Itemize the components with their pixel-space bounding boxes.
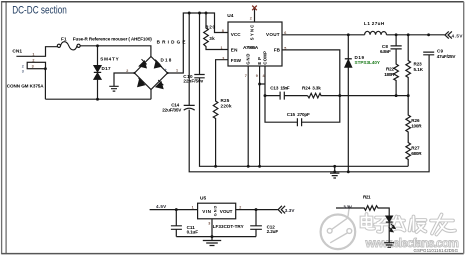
svg-text:1: 1 (221, 46, 223, 50)
svg-text:2.2uF: 2.2uF (267, 229, 279, 234)
svg-text:2: 2 (126, 69, 128, 73)
capacitor C8 plates (391, 46, 402, 49)
ground (bridge) (109, 86, 118, 91)
svg-text:CONN GM K375A: CONN GM K375A (7, 83, 44, 88)
svg-text:FB: FB (274, 48, 281, 53)
svg-text:5.1K: 5.1K (414, 67, 424, 72)
inductor L1 (365, 31, 387, 35)
svg-text:3: 3 (208, 221, 210, 225)
svg-text:2: 2 (32, 58, 34, 62)
wire U4 FB to divider (282, 50, 340, 96)
svg-text:3.3V: 3.3V (343, 204, 353, 209)
U5 output wire (236, 209, 278, 211)
wire U4 GND pin (247, 66, 249, 166)
svg-text:LF33CDT-TRY: LF33CDT-TRY (213, 224, 244, 229)
svg-text:BRIDGE: BRIDGE (157, 39, 186, 44)
svg-text:6: 6 (284, 31, 286, 35)
U5 input wire 4.5V (150, 209, 198, 211)
watermark chinese characters (362, 214, 456, 235)
capacitor C13 (265, 92, 308, 100)
bottom wire C11 to C12 (176, 236, 256, 238)
capacitor C12 branch (255, 210, 257, 237)
svg-text:C9: C9 (437, 49, 443, 54)
wire bottom rail to bridge (45, 90, 151, 100)
svg-text:9: 9 (256, 74, 258, 78)
svg-text:STPS3L40Y: STPS3L40Y (355, 60, 381, 65)
ground (R21) (384, 243, 394, 248)
wire D17 branch (97, 46, 99, 99)
resistor R20 (204, 13, 228, 50)
wire U5 GND pin (211, 219, 213, 237)
wire bridge minus to ground (114, 73, 135, 86)
fuse F1 (57, 42, 80, 50)
svg-text:R23: R23 (414, 62, 423, 67)
capacitor C14 plates (184, 105, 195, 110)
svg-text:1: 1 (32, 53, 34, 57)
output port chevron 3.3V (278, 206, 285, 214)
wire L1 to 4.5V output (387, 34, 445, 36)
svg-text:3k: 3k (209, 36, 215, 41)
bridge D18 diamond (135, 57, 168, 90)
svg-text:3: 3 (222, 56, 224, 60)
svg-text:180R: 180R (384, 72, 395, 77)
capacitor C15 loop (265, 96, 340, 127)
capacitor C12 plates (250, 226, 262, 230)
svg-text:22uF/35V: 22uF/35V (162, 108, 182, 113)
svg-text:220k: 220k (221, 104, 232, 109)
svg-text:D18: D18 (161, 58, 172, 63)
svg-text:C15: C15 (287, 112, 296, 117)
wire CN1 pin1 to fuse (16, 47, 57, 57)
svg-text:DC-DC section: DC-DC section (12, 4, 67, 17)
resistor R21 wire (336, 206, 389, 216)
U5 regulator body (198, 203, 236, 219)
resistor R23 chain R26 R27 (406, 35, 411, 167)
svg-text:A7986A: A7986A (243, 45, 259, 51)
resistor R24 (308, 93, 409, 98)
svg-text:SYNC: SYNC (249, 25, 254, 41)
svg-text:8: 8 (222, 29, 224, 33)
svg-text:3.3k: 3.3k (312, 85, 321, 90)
svg-text:2: 2 (22, 64, 24, 68)
svg-text:GND: GND (246, 54, 251, 65)
svg-text:6.8nF: 6.8nF (380, 49, 391, 54)
svg-text:3: 3 (32, 65, 34, 69)
svg-text:27uH: 27uH (372, 21, 385, 26)
wire U4 SYNC pin (254, 9, 256, 22)
svg-text:GSPG110116142D5G: GSPG110116142D5G (414, 248, 459, 253)
wire U4 EP pin (260, 66, 265, 166)
svg-text:R22: R22 (386, 66, 394, 71)
svg-text:VCC: VCC (231, 32, 241, 37)
svg-text:100R: 100R (411, 124, 422, 129)
svg-text:R24: R24 (302, 85, 311, 90)
svg-text:U5: U5 (200, 195, 206, 201)
svg-text:EN: EN (231, 48, 238, 53)
svg-text:SM4TY: SM4TY (100, 57, 119, 62)
connector CN1 body (27, 62, 45, 68)
svg-text:4.5V: 4.5V (452, 33, 464, 38)
svg-text:22nF/50v: 22nF/50v (183, 79, 203, 84)
capacitor C8 / resistor R22 branch (394, 35, 399, 96)
output port chevron 4.5V (445, 31, 452, 38)
watermark logo circle (321, 206, 356, 249)
svg-text:VIN: VIN (202, 209, 211, 214)
svg-text:47uF/25V: 47uF/25V (437, 54, 457, 59)
svg-text:D17: D17 (102, 66, 111, 71)
svg-text:1: 1 (192, 205, 194, 209)
capacitor C11 branch (175, 210, 177, 237)
capacitor C11 plates (171, 226, 182, 230)
wire fuse to bridge top (80, 46, 151, 57)
svg-text:F1: F1 (61, 37, 67, 42)
wire CN1 pin3 down to bottom rail (44, 69, 46, 100)
ground (U5) (203, 237, 221, 246)
svg-text:3.3V: 3.3V (285, 208, 296, 213)
svg-text:CN1: CN1 (12, 49, 22, 55)
svg-text:4.5V: 4.5V (156, 204, 167, 209)
svg-text:R25: R25 (221, 98, 230, 103)
svg-text:Fuse-R Reference mouser ( AHEF: Fuse-R Reference mouser ( AHEF100) (73, 37, 152, 42)
svg-text:EP: EP (257, 57, 262, 65)
wire U4 VOUT to L1 (282, 34, 365, 36)
svg-text:R27: R27 (411, 146, 420, 151)
diode D19 branch (347, 35, 349, 172)
svg-text:5: 5 (284, 47, 286, 51)
svg-text:7: 7 (245, 74, 247, 78)
svg-text:2: 2 (250, 16, 252, 20)
svg-text:C13: C13 (270, 85, 279, 90)
svg-text:R20: R20 (205, 24, 215, 29)
capacitor C10 plates (194, 75, 204, 78)
svg-text:3: 3 (22, 69, 24, 73)
svg-text:0.1uF: 0.1uF (187, 230, 199, 235)
svg-text:GND: GND (214, 205, 218, 216)
wire LED to ground (388, 222, 390, 242)
svg-text:VOUT: VOUT (220, 209, 233, 214)
svg-text:270pF: 270pF (297, 112, 310, 117)
capacitor C9 plates (423, 52, 434, 55)
LED on R21 net (386, 216, 395, 232)
ground (main rail) (330, 166, 339, 178)
wire bridge output up and over to U4 VCC (168, 13, 229, 73)
svg-text:1: 1 (176, 69, 178, 73)
svg-text:L1: L1 (364, 21, 370, 26)
svg-text:680R: 680R (411, 151, 422, 156)
svg-text:U4: U4 (227, 13, 233, 19)
svg-text:FSW: FSW (231, 58, 242, 63)
TVS diode D17 (94, 66, 101, 80)
wire U4 COMP pin (264, 66, 266, 96)
U4 IC body (228, 22, 282, 66)
capacitor C10 branch and upper ground rail (200, 13, 409, 166)
svg-text:VOUT: VOUT (266, 32, 280, 37)
diode D19 (345, 59, 352, 67)
svg-text:2: 2 (239, 205, 241, 209)
svg-text:COMP: COMP (262, 51, 267, 65)
svg-text:R26: R26 (411, 118, 420, 123)
svg-text:15nF: 15nF (280, 85, 289, 90)
svg-text:R21: R21 (363, 195, 371, 200)
no-connect X on SYNC (252, 6, 257, 11)
capacitor C14 branch and lower ground rail (189, 13, 429, 172)
svg-text:+: + (165, 68, 167, 72)
resistor R25 on FSW net (213, 60, 228, 167)
bridge diodes (4) (138, 59, 164, 88)
